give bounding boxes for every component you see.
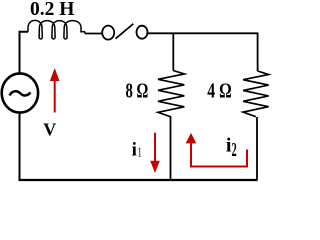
svg-text:i: i bbox=[132, 140, 137, 161]
svg-text:4 Ω: 4 Ω bbox=[207, 79, 232, 103]
switch terminal circle left bbox=[102, 26, 114, 40]
svg-text:1: 1 bbox=[138, 146, 142, 161]
svg-text:0.2 H: 0.2 H bbox=[30, 0, 74, 20]
svg-text:8 Ω: 8 Ω bbox=[126, 79, 149, 102]
wire switch to top-right corner bbox=[148, 32, 258, 34]
svg-text:V: V bbox=[43, 120, 56, 140]
wire 8-ohm to bottom bbox=[170, 117, 172, 180]
wire middle branch drop (node to 8-ohm) bbox=[172, 33, 174, 70]
wire 4-ohm to bottom bbox=[256, 117, 258, 180]
wire left column (source to top corner) bbox=[20, 32, 29, 74]
svg-text:2: 2 bbox=[232, 140, 237, 161]
AC source sine squiggle bbox=[10, 91, 31, 95]
red mesh loop arrow i2 bbox=[186, 133, 247, 167]
inductor L1 0.2 H bbox=[28, 20, 85, 39]
resistor R2 4 ohm zigzag bbox=[243, 71, 269, 117]
wire inductor to switch bbox=[85, 33, 102, 35]
red arrow V polarity (up) bbox=[50, 68, 60, 113]
switch blade (open) bbox=[116, 24, 134, 39]
switch terminal circle right bbox=[137, 26, 148, 39]
resistor R1 8 ohm zigzag bbox=[158, 71, 184, 118]
wire left column below source bbox=[19, 113, 21, 181]
wire right column drop (corner to 4-ohm) bbox=[257, 33, 259, 72]
red arrow current i1 (down) bbox=[150, 133, 160, 173]
wire bottom bbox=[19, 179, 258, 181]
AC source V1 circle bbox=[2, 73, 38, 112]
